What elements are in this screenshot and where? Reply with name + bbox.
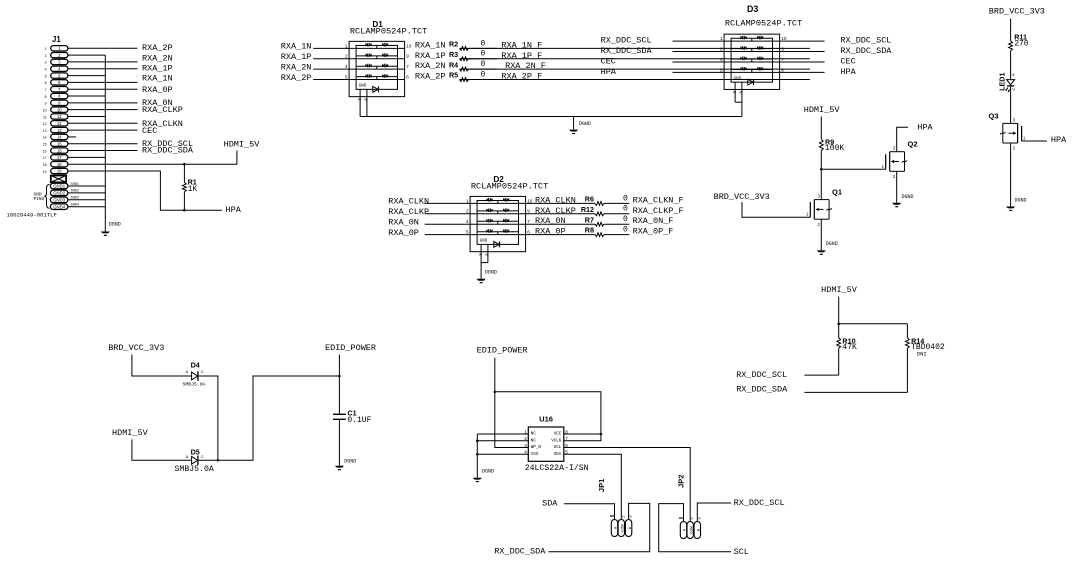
jumper JP1 xyxy=(597,479,633,537)
svg-text:17: 17 xyxy=(57,155,62,160)
svg-text:GND4: GND4 xyxy=(53,204,66,209)
svg-text:D5: D5 xyxy=(191,448,200,457)
node RX_DDC_SDA at JP1 xyxy=(494,547,546,557)
svg-text:R6: R6 xyxy=(585,195,594,204)
svg-text:RXA_CLKP: RXA_CLKP xyxy=(388,207,429,217)
svg-text:LED1: LED1 xyxy=(997,73,1006,91)
wire J1 pin 11 to ground bus xyxy=(68,115,105,117)
svg-text:HPA: HPA xyxy=(840,67,856,77)
svg-text:13: 13 xyxy=(43,129,47,133)
svg-text:6: 6 xyxy=(527,230,530,235)
node HPA into D3 xyxy=(601,67,617,77)
svg-text:WP_N: WP_N xyxy=(531,446,542,450)
svg-text:RX_DDC_SCL: RX_DDC_SCL xyxy=(601,36,652,46)
wire BRD_VCC_3V3 to D4 anode xyxy=(132,355,192,377)
node RXA_CLKN_F xyxy=(633,195,684,205)
svg-text:RXA_2N: RXA_2N xyxy=(142,53,173,63)
node RXA_0N out of D2 xyxy=(535,216,566,226)
svg-text:10: 10 xyxy=(43,108,47,112)
svg-text:RCLAMP0524P.TCT: RCLAMP0524P.TCT xyxy=(350,27,427,37)
svg-text:DGND: DGND xyxy=(1015,198,1027,204)
wire J1 pin 10 xyxy=(68,109,138,111)
wire EDID_POWER to C1 xyxy=(338,355,340,415)
svg-text:RXA_CLKP: RXA_CLKP xyxy=(142,105,183,115)
EEPROM U16 24LCS22A-I/SN xyxy=(524,415,588,473)
connector J1 title xyxy=(52,35,61,44)
svg-text:CEC: CEC xyxy=(840,56,855,66)
node RX_DDC_SCL at JP2 xyxy=(734,498,785,508)
svg-text:270: 270 xyxy=(1014,40,1029,49)
svg-text:6: 6 xyxy=(781,67,784,72)
svg-text:1K: 1K xyxy=(188,185,198,194)
node CEC into D3 xyxy=(601,56,616,66)
svg-text:JP1: JP1 xyxy=(597,479,606,492)
svg-text:HDMI_5V: HDMI_5V xyxy=(804,105,841,115)
svg-text:R7: R7 xyxy=(585,215,594,224)
node CEC out of D3 xyxy=(840,56,855,66)
power HDMI_5V above R9 xyxy=(804,105,841,115)
svg-text:0.1UF: 0.1UF xyxy=(347,416,371,425)
wire HDMI_5V to R9 xyxy=(820,116,822,139)
svg-text:NC: NC xyxy=(531,433,537,437)
node RXA_2P out of D1 xyxy=(415,72,446,82)
wire CEC to D3 pin xyxy=(673,61,725,63)
svg-text:DGND: DGND xyxy=(485,270,497,276)
wire D5 cathode to EDID_POWER xyxy=(198,375,341,461)
ground DGND under Q1 xyxy=(817,241,838,255)
svg-text:0: 0 xyxy=(623,215,628,224)
node RXA_1N xyxy=(142,74,173,84)
node RXA_2N_F xyxy=(505,61,546,71)
ground DGND under Q2 xyxy=(892,194,913,207)
svg-text:9: 9 xyxy=(781,46,784,51)
node RXA_0P into D2 xyxy=(388,228,419,238)
svg-text:D3: D3 xyxy=(747,4,758,14)
node RX_DDC_SDA out of D3 xyxy=(840,46,892,56)
svg-text:2: 2 xyxy=(466,209,469,214)
svg-text:A: A xyxy=(1011,73,1016,76)
svg-text:2: 2 xyxy=(45,54,47,58)
node HPA at Q2 xyxy=(917,122,933,132)
svg-text:DGND: DGND xyxy=(579,121,591,127)
wire J1 GND3 to ground bus xyxy=(68,199,105,201)
svg-text:GND: GND xyxy=(359,83,367,88)
svg-text:HPA: HPA xyxy=(226,205,242,215)
svg-text:0: 0 xyxy=(623,194,628,203)
svg-text:5: 5 xyxy=(345,74,348,79)
svg-text:CEC: CEC xyxy=(601,56,616,66)
node RX_DDC_SCL xyxy=(142,139,193,149)
svg-text:NC: NC xyxy=(531,439,537,443)
svg-text:RXA_1N: RXA_1N xyxy=(142,74,173,84)
wire JP1 pin 3 to RX_DDC_SDA xyxy=(549,503,650,551)
svg-text:3: 3 xyxy=(45,61,47,65)
node RXA_0P xyxy=(142,85,173,95)
svg-text:RXA_1N_F: RXA_1N_F xyxy=(501,40,542,50)
svg-text:9: 9 xyxy=(527,209,530,214)
node RX_DDC_SCL into D3 xyxy=(601,36,652,46)
svg-text:SMBJ5.0A: SMBJ5.0A xyxy=(175,465,214,474)
svg-text:10: 10 xyxy=(406,43,412,48)
svg-text:4: 4 xyxy=(466,219,469,224)
wire J1 shield/ground bus xyxy=(104,55,106,231)
svg-text:RXA_CLKN: RXA_CLKN xyxy=(388,197,429,207)
wire J1 pin 2 to ground bus xyxy=(68,54,105,56)
svg-text:10: 10 xyxy=(527,198,533,203)
svg-text:RXA_CLKN_F: RXA_CLKN_F xyxy=(633,195,684,205)
node RXA_0N xyxy=(142,98,173,108)
svg-text:JP2: JP2 xyxy=(677,475,686,488)
node RXA_2P into D1 xyxy=(281,73,312,83)
svg-text:18: 18 xyxy=(57,162,62,167)
svg-text:100K: 100K xyxy=(825,144,844,153)
node RXA_2P_F xyxy=(501,72,542,82)
svg-text:Q3: Q3 xyxy=(989,112,999,121)
resistor R14 TBD0402 DNI xyxy=(906,336,945,357)
wire Q2 drain to HPA xyxy=(897,127,908,152)
wire RXA_0P to D2 pin xyxy=(425,234,470,236)
svg-text:C: C xyxy=(201,369,204,374)
wire D3 output row 2 xyxy=(780,51,825,53)
transistor Q2 xyxy=(882,140,918,179)
resistor R8 xyxy=(585,226,628,237)
resistor R10 47K xyxy=(837,336,857,352)
connector J1 GND PINS brace and label xyxy=(34,185,50,209)
node CEC xyxy=(142,126,157,136)
wire RXA_2N to D1 pin xyxy=(313,68,349,70)
power EDID_POWER at C1 xyxy=(325,343,376,353)
node RXA_0P out of D2 xyxy=(535,227,566,237)
svg-text:RX_DDC_SCL: RX_DDC_SCL xyxy=(840,36,891,46)
svg-text:18: 18 xyxy=(43,163,47,167)
svg-text:COM: COM xyxy=(689,526,693,534)
svg-text:4: 4 xyxy=(45,68,47,72)
node RXA_0P_F xyxy=(633,227,674,237)
node RXA_1P_F xyxy=(501,51,542,61)
svg-text:12: 12 xyxy=(57,121,62,126)
wire EDID_POWER stem to U16 pin 3 xyxy=(494,358,529,448)
svg-text:RX_DDC_SDA: RX_DDC_SDA xyxy=(494,547,546,557)
node RXA_1N out of D1 xyxy=(415,40,446,50)
svg-text:GND1: GND1 xyxy=(53,184,66,189)
node RXA_2N xyxy=(142,53,173,63)
wire R10 to RX_DDC_SCL xyxy=(804,348,838,375)
node RXA_1P xyxy=(142,63,173,73)
svg-text:5: 5 xyxy=(720,67,723,72)
svg-text:15: 15 xyxy=(57,141,62,146)
svg-text:BRD_VCC_3V3: BRD_VCC_3V3 xyxy=(108,343,164,353)
svg-text:RXA_2P_F: RXA_2P_F xyxy=(501,72,542,82)
wire J1 GND1 to ground bus xyxy=(68,185,105,187)
svg-text:2: 2 xyxy=(345,54,348,59)
svg-text:RXA_1N: RXA_1N xyxy=(415,40,446,50)
node RXA_2N out of D1 xyxy=(415,61,446,71)
svg-text:10029449-001TLF: 10029449-001TLF xyxy=(7,211,57,218)
wire J1 pin 8 to ground bus xyxy=(68,95,105,97)
wire D2 output row 2 xyxy=(526,213,630,215)
svg-text:RXA_1P_F: RXA_1P_F xyxy=(501,51,542,61)
svg-text:EDID_POWER: EDID_POWER xyxy=(477,346,528,356)
node RX_DDC_SDA at R14 xyxy=(736,385,788,395)
node RX_DDC_SCL out of D3 xyxy=(840,36,891,46)
diode LED1 xyxy=(997,73,1016,93)
power BRD_VCC_3V3 at R11 xyxy=(989,7,1045,17)
wire J1 pin 19 to HPA xyxy=(68,171,222,210)
power HDMI_5V at D5 xyxy=(112,428,149,438)
svg-text:A: A xyxy=(186,454,189,459)
svg-text:SMBJ5.0A: SMBJ5.0A xyxy=(183,382,206,388)
svg-text:DGND: DGND xyxy=(482,468,494,474)
svg-text:19: 19 xyxy=(43,170,47,174)
svg-text:16: 16 xyxy=(43,149,47,153)
svg-text:GND: GND xyxy=(480,239,488,244)
svg-text:1: 1 xyxy=(345,43,348,48)
resistor R7 xyxy=(585,215,628,226)
node RXA_1N_F xyxy=(501,40,542,50)
TVS clamp D2 RCLAMP0524P.TCT xyxy=(466,175,548,256)
svg-text:DNI: DNI xyxy=(917,351,927,358)
wire J1 pin 17 to ground bus xyxy=(68,156,105,158)
wire JP2 pin 1 to SCL xyxy=(659,504,731,552)
svg-text:14: 14 xyxy=(43,136,47,140)
svg-text:BRD_VCC_3V3: BRD_VCC_3V3 xyxy=(714,192,770,202)
wire branch to R14 xyxy=(839,324,908,338)
TVS clamp D3 RCLAMP0524P.TCT xyxy=(720,4,802,94)
connector J1 no-connect box xyxy=(51,176,66,183)
svg-text:RXA_2P: RXA_2P xyxy=(142,43,173,53)
transistor Q1 xyxy=(806,187,842,226)
wire HDMI_5V to R10 with branch xyxy=(837,297,840,338)
wire HDMI_5V to D5 anode xyxy=(132,440,192,461)
svg-text:DGND: DGND xyxy=(109,222,121,228)
wire D2 output row 4 xyxy=(526,234,630,236)
node RXA_CLKP xyxy=(142,105,183,115)
svg-text:24LCS22A-I/SN: 24LCS22A-I/SN xyxy=(525,463,589,473)
svg-text:9: 9 xyxy=(45,102,47,106)
connector J1 pins 1-19 xyxy=(43,46,68,174)
svg-text:4: 4 xyxy=(720,57,723,62)
power BRD_VCC_3V3 at D4 xyxy=(108,343,164,353)
wire J1 pin 9 xyxy=(68,102,138,104)
svg-text:COM: COM xyxy=(621,524,625,532)
wire D2 output row 3 xyxy=(526,223,630,225)
svg-text:GND2: GND2 xyxy=(53,191,66,196)
svg-text:EDID_POWER: EDID_POWER xyxy=(325,343,376,353)
svg-text:RXA_1P: RXA_1P xyxy=(142,63,173,73)
wire J1 pin 15 xyxy=(68,143,138,145)
node RXA_CLKN xyxy=(142,119,183,129)
wire Q1 source to ground xyxy=(820,219,822,250)
svg-text:RX_DDC_SDA: RX_DDC_SDA xyxy=(736,385,788,395)
svg-text:VCC: VCC xyxy=(554,433,562,437)
svg-text:R5: R5 xyxy=(449,71,458,80)
svg-text:U16: U16 xyxy=(539,415,553,424)
svg-text:HPA: HPA xyxy=(601,67,617,77)
svg-text:RXA_1P: RXA_1P xyxy=(415,51,446,61)
svg-text:RX_DDC_SDA: RX_DDC_SDA xyxy=(840,46,892,56)
power EDID_POWER at U16 xyxy=(477,346,528,356)
svg-text:HPA: HPA xyxy=(1051,135,1067,145)
ground DGND under U16 xyxy=(473,468,494,482)
svg-text:6: 6 xyxy=(45,81,47,85)
node RXA_1P into D1 xyxy=(281,52,312,62)
wire U16 pins 1 2 4 to ground rail xyxy=(476,434,528,478)
power BRD_VCC_3V3 at Q1 xyxy=(714,192,770,202)
svg-text:0: 0 xyxy=(481,50,486,59)
wire U16 SCL pin 6 to JP2 pin 2 xyxy=(564,448,690,522)
wire D1 output row 4 xyxy=(460,79,810,81)
svg-text:7: 7 xyxy=(45,88,47,92)
diode D4 SMBJ5.0A xyxy=(183,361,206,388)
svg-text:RXA_2P: RXA_2P xyxy=(281,73,312,83)
wire U16 SDA pin 5 to JP1 pin 2 xyxy=(564,454,622,519)
svg-text:DGND: DGND xyxy=(826,241,838,247)
svg-text:0: 0 xyxy=(623,205,628,214)
ground DGND under Q3 xyxy=(1006,198,1027,211)
svg-text:RXA_2P: RXA_2P xyxy=(415,72,446,82)
svg-text:16: 16 xyxy=(57,148,62,153)
capacitor C1 0.1UF xyxy=(333,409,372,425)
power HDMI_5V at J1 xyxy=(224,140,261,150)
svg-text:RXA_0P: RXA_0P xyxy=(142,85,173,95)
node SDA xyxy=(542,499,558,509)
wire RXA_CLKN to D2 pin xyxy=(425,202,470,204)
wire D4 cathode down to D5 net xyxy=(198,376,219,462)
resistor R3 xyxy=(449,50,486,61)
svg-text:CEC: CEC xyxy=(142,126,157,136)
wire BRD_VCC_3V3 to Q1 gate xyxy=(742,202,810,217)
wire Q3 gate to HPA xyxy=(1022,140,1047,142)
wire J1 pin 7 xyxy=(68,88,138,90)
svg-text:RXA_2N: RXA_2N xyxy=(415,61,446,71)
svg-text:J1: J1 xyxy=(52,35,61,44)
wire R9 to Q1 drain with junction xyxy=(820,151,823,200)
power HDMI_5V above R10 xyxy=(821,285,858,295)
wire J1 pin 3 xyxy=(68,61,138,63)
svg-text:0: 0 xyxy=(481,39,486,48)
svg-text:RX_DDC_SCL: RX_DDC_SCL xyxy=(734,498,785,508)
wire D1 output row 2 xyxy=(460,58,810,60)
wire J1 pin 6 xyxy=(68,81,138,83)
svg-text:R4: R4 xyxy=(449,60,458,69)
wire RXA_0N to D2 pin xyxy=(425,223,470,225)
svg-text:RX_DDC_SDA: RX_DDC_SDA xyxy=(601,46,653,56)
node RX_DDC_SDA xyxy=(142,146,194,156)
svg-text:D4: D4 xyxy=(191,361,200,370)
TVS clamp D1 RCLAMP0524P.TCT xyxy=(345,20,427,101)
wire C1 to ground xyxy=(338,419,340,465)
ground DGND on rail xyxy=(569,117,591,135)
svg-text:R3: R3 xyxy=(449,50,458,59)
svg-text:5: 5 xyxy=(466,230,469,235)
node RXA_CLKP_F xyxy=(633,206,684,216)
wire EDID_POWER loop to U16 pins 8 and 7 xyxy=(495,392,602,441)
svg-text:RX_DDC_SCL: RX_DDC_SCL xyxy=(736,370,787,380)
wire J1 pin 13 xyxy=(68,129,138,131)
svg-text:VCLK: VCLK xyxy=(551,439,562,443)
wire D2 output row 1 xyxy=(526,202,630,204)
jumper JP2 xyxy=(677,475,702,539)
wire RXA_1N to D1 pin xyxy=(313,47,349,49)
svg-text:RXA_0N_F: RXA_0N_F xyxy=(633,216,674,226)
wire DGND rail under D1 and D3 xyxy=(360,116,742,118)
wire J1 pin 18 HDMI_5V net xyxy=(68,151,237,165)
wire RXA_CLKP to D2 pin xyxy=(425,213,470,215)
wire J1 GND4 to ground bus xyxy=(68,206,105,208)
svg-text:SDA: SDA xyxy=(542,499,558,509)
svg-text:RXA_0P_F: RXA_0P_F xyxy=(633,227,674,237)
wire RX_DDC_SCL to D3 pin xyxy=(673,40,725,42)
svg-text:HPA: HPA xyxy=(917,122,933,132)
node HPA at J1 xyxy=(226,205,242,215)
node RXA_CLKN into D2 xyxy=(388,197,429,207)
wire junction to Q2 gate xyxy=(821,168,885,170)
svg-text:RXA_1N: RXA_1N xyxy=(281,42,312,52)
svg-text:8: 8 xyxy=(45,95,47,99)
svg-text:RXA_2N_F: RXA_2N_F xyxy=(505,61,546,71)
svg-text:SDA: SDA xyxy=(554,453,562,457)
resistor R4 xyxy=(449,60,486,71)
svg-text:A: A xyxy=(186,369,189,374)
svg-text:RXA_0N: RXA_0N xyxy=(388,217,419,227)
wire D3 ground pins xyxy=(735,82,742,116)
wire D3 output row 3 xyxy=(780,61,825,63)
svg-text:11: 11 xyxy=(43,115,47,119)
svg-text:7: 7 xyxy=(406,64,409,69)
svg-text:RXA_0P: RXA_0P xyxy=(388,228,419,238)
wire D1 output row 3 xyxy=(460,68,810,70)
svg-text:RX_DDC_SDA: RX_DDC_SDA xyxy=(142,146,194,156)
ground DGND under D2 xyxy=(477,270,497,284)
wire J1 pin 16 xyxy=(68,150,138,152)
svg-text:1: 1 xyxy=(466,198,469,203)
svg-text:14: 14 xyxy=(57,135,62,140)
svg-text:DGND: DGND xyxy=(902,194,914,200)
wire J1 pin 1 xyxy=(68,47,138,49)
node HPA out of D3 xyxy=(840,67,856,77)
svg-text:DGND: DGND xyxy=(344,459,356,465)
svg-text:C: C xyxy=(1011,88,1016,91)
svg-text:GND3: GND3 xyxy=(53,198,66,203)
svg-text:SCL: SCL xyxy=(734,547,749,557)
node RXA_CLKN out of D2 xyxy=(535,195,576,205)
wire BRD_VCC_3V3 to R11 xyxy=(1010,18,1012,40)
wire D3 output row 4 xyxy=(780,71,825,73)
svg-text:47K: 47K xyxy=(842,343,857,352)
svg-text:RXA_2N: RXA_2N xyxy=(281,62,312,72)
svg-text:0: 0 xyxy=(623,226,628,235)
node RX_DDC_SCL at R10 xyxy=(736,370,787,380)
node RXA_0N into D2 xyxy=(388,217,419,227)
svg-text:HDMI_5V: HDMI_5V xyxy=(821,285,858,295)
wire D1 output row 1 xyxy=(460,47,810,49)
wire RX_DDC_SDA to D3 pin xyxy=(673,51,725,53)
resistor R9 100K xyxy=(819,137,844,153)
wire HPA to D3 pin xyxy=(673,71,725,73)
svg-text:GND: GND xyxy=(734,76,742,81)
node RXA_2P xyxy=(142,43,173,53)
svg-text:2: 2 xyxy=(720,46,723,51)
svg-text:R12: R12 xyxy=(581,205,594,214)
wire RXA_2P to D1 pin xyxy=(313,79,349,81)
svg-text:SCL: SCL xyxy=(554,446,562,450)
svg-text:C: C xyxy=(201,454,204,459)
svg-text:7: 7 xyxy=(781,57,784,62)
wire SDA to JP1 pin 1 xyxy=(564,504,615,520)
svg-text:Q1: Q1 xyxy=(832,187,842,196)
svg-text:R8: R8 xyxy=(585,226,594,235)
svg-text:15: 15 xyxy=(43,143,47,147)
